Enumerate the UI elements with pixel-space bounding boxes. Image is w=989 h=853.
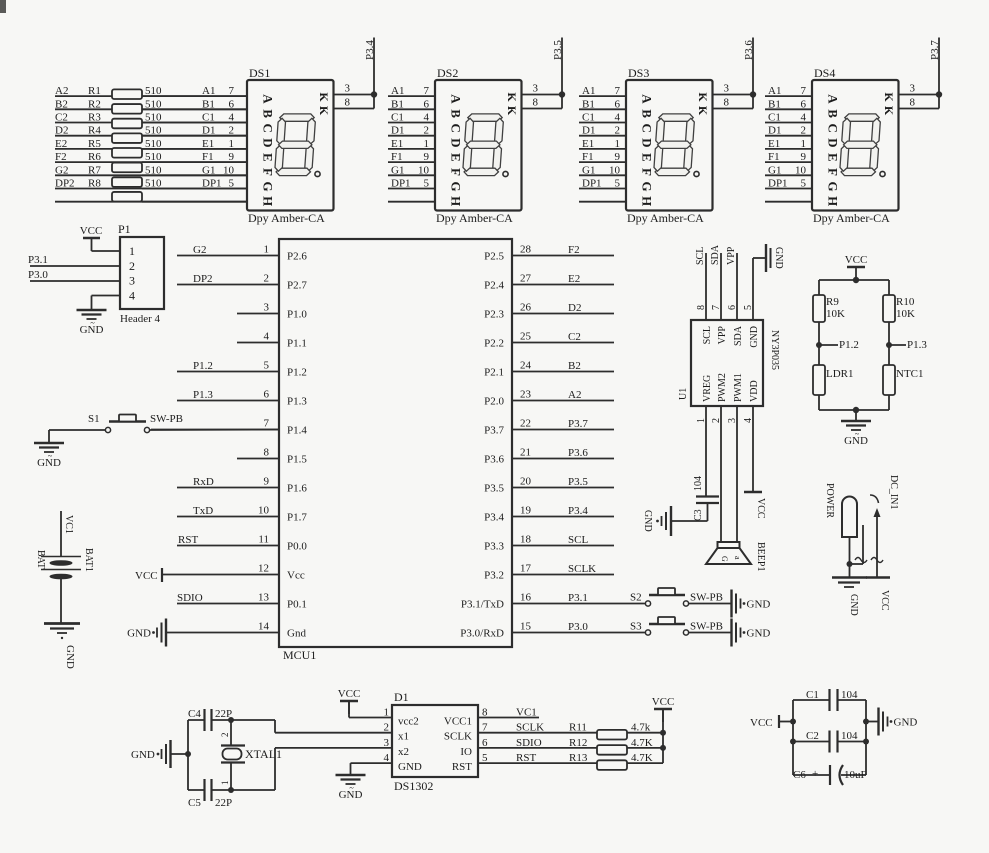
svg-text:3: 3 bbox=[910, 83, 916, 95]
svg-text:SDA: SDA bbox=[733, 325, 744, 346]
U1 pin 3 wire to speaker bbox=[736, 406, 738, 542]
wire D1 pin 7 to R11 bbox=[478, 732, 597, 734]
svg-text:C2: C2 bbox=[55, 112, 68, 124]
svg-text:9: 9 bbox=[615, 151, 621, 163]
DS3 decimal point bbox=[694, 171, 699, 176]
sideways ground at filter caps bbox=[879, 708, 918, 736]
DS4 decimal point bbox=[880, 171, 885, 176]
connector DC_IN1 bbox=[855, 475, 899, 577]
svg-text:DP2: DP2 bbox=[193, 273, 213, 285]
svg-text:C1: C1 bbox=[202, 112, 215, 124]
DS4 seven-segment digit 8 bbox=[840, 114, 880, 176]
wire R13 to VCC bus bbox=[627, 762, 663, 764]
svg-text:G: G bbox=[720, 556, 729, 562]
DS1 inner segment letters A-H bbox=[261, 94, 276, 206]
svg-text:P1.2: P1.2 bbox=[193, 360, 213, 372]
wire P3.1 to P1 pin2 bbox=[30, 265, 120, 267]
svg-text:F1: F1 bbox=[768, 151, 780, 163]
svg-text:SCL: SCL bbox=[695, 247, 706, 265]
wire P3.0 to P1 pin3 bbox=[30, 280, 120, 282]
svg-text:DS4: DS4 bbox=[814, 66, 835, 80]
VCC terminal at U1 pin 4 bbox=[744, 492, 766, 519]
display DS4 box bbox=[812, 66, 899, 225]
svg-text:510: 510 bbox=[145, 178, 162, 190]
svg-text:GND: GND bbox=[747, 599, 771, 611]
svg-text:NY3P035: NY3P035 bbox=[769, 330, 780, 370]
svg-text:B: B bbox=[449, 109, 464, 118]
svg-text:a: a bbox=[733, 556, 742, 560]
svg-text:26: 26 bbox=[520, 302, 532, 314]
svg-text:DS1302: DS1302 bbox=[394, 779, 433, 793]
svg-text:18: 18 bbox=[520, 534, 532, 546]
DS3 seven-segment digit 8 bbox=[654, 114, 694, 176]
capacitor C4 22P bbox=[188, 708, 232, 731]
svg-text:K: K bbox=[317, 92, 331, 102]
DS3 pin 3 wire bbox=[713, 94, 754, 96]
svg-text:GND: GND bbox=[339, 789, 363, 801]
svg-text:P3.6: P3.6 bbox=[743, 40, 755, 60]
U1 pin 6 wire bbox=[736, 253, 738, 320]
svg-text:PWM2: PWM2 bbox=[717, 373, 728, 402]
svg-text:G1: G1 bbox=[391, 164, 404, 176]
svg-text:GND: GND bbox=[398, 761, 422, 773]
DS4 pin 3 wire bbox=[899, 94, 940, 96]
svg-text:DP1: DP1 bbox=[202, 178, 222, 190]
MCU left pin numbers and inner labels bbox=[258, 244, 307, 640]
junction R11 bus bbox=[660, 730, 666, 736]
svg-text:7: 7 bbox=[615, 85, 621, 97]
DS4 pin numbers 3 8 bbox=[910, 83, 916, 109]
svg-text:4: 4 bbox=[424, 112, 430, 124]
svg-text:Dpy Amber-CA: Dpy Amber-CA bbox=[627, 211, 704, 225]
VCC symbol at P1 pin 1 bbox=[80, 225, 103, 238]
svg-text:C4: C4 bbox=[188, 708, 201, 720]
svg-text:F: F bbox=[449, 168, 464, 176]
svg-text:DC_IN1: DC_IN1 bbox=[888, 475, 899, 509]
svg-text:R11: R11 bbox=[569, 722, 587, 734]
svg-text:6: 6 bbox=[264, 389, 270, 401]
svg-text:P3.1: P3.1 bbox=[568, 592, 588, 604]
svg-text:D1: D1 bbox=[391, 125, 404, 137]
wire POWER to junction bbox=[849, 537, 851, 564]
svg-text:14: 14 bbox=[258, 621, 270, 633]
VCC at D1 pin 1 bbox=[338, 688, 361, 714]
svg-text:P1.4: P1.4 bbox=[287, 425, 307, 437]
left rail filter caps bbox=[792, 700, 794, 775]
sideways ground at S2 bbox=[732, 590, 771, 618]
battery BAT1 bbox=[35, 511, 94, 623]
svg-text:4: 4 bbox=[264, 331, 270, 343]
DS2 inner segment letters A-H bbox=[449, 94, 464, 206]
speaker BEEP1 bbox=[706, 542, 766, 571]
svg-text:P3.4: P3.4 bbox=[568, 505, 588, 517]
junction VCC rail bbox=[853, 277, 859, 283]
svg-text:Vcc: Vcc bbox=[287, 570, 305, 582]
switch S2 SW-PB bbox=[630, 588, 723, 606]
resistor R1 bbox=[88, 85, 162, 99]
resistor R6 bbox=[88, 151, 162, 172]
svg-text:P0.0: P0.0 bbox=[287, 541, 307, 553]
svg-text:3: 3 bbox=[264, 302, 270, 314]
svg-text:A2: A2 bbox=[568, 389, 581, 401]
svg-text:B1: B1 bbox=[768, 98, 781, 110]
svg-text:4: 4 bbox=[615, 112, 621, 124]
U1 pin 7 wire bbox=[720, 253, 722, 320]
sideways ground at C3 bbox=[642, 506, 671, 536]
svg-text:510: 510 bbox=[145, 164, 162, 176]
svg-text:P1.5: P1.5 bbox=[287, 454, 307, 466]
svg-text:G: G bbox=[261, 182, 276, 192]
svg-text:510: 510 bbox=[145, 112, 162, 124]
resistor R3 bbox=[88, 112, 162, 129]
svg-text:RST: RST bbox=[516, 752, 536, 764]
D1 inner pin labels bbox=[398, 716, 472, 774]
wire to ground bbox=[855, 410, 857, 421]
thermistor NTC1 bbox=[883, 365, 924, 395]
svg-text:P0.1: P0.1 bbox=[287, 599, 307, 611]
svg-text:E1: E1 bbox=[202, 138, 214, 150]
junction P1.3 tap bbox=[886, 342, 892, 348]
svg-text:510: 510 bbox=[145, 85, 162, 97]
svg-text:A1: A1 bbox=[768, 85, 781, 97]
svg-text:U1: U1 bbox=[678, 388, 689, 400]
U1 pin 4 wire to VCC bbox=[752, 406, 754, 492]
svg-text:DS1: DS1 bbox=[249, 66, 270, 80]
svg-text:G2: G2 bbox=[193, 244, 206, 256]
wire ground to cap rail bbox=[171, 753, 189, 755]
left rail C4-C5 bbox=[187, 720, 189, 790]
svg-text:F1: F1 bbox=[391, 151, 403, 163]
svg-text:P1.2: P1.2 bbox=[287, 367, 307, 379]
junction left rail VCC bbox=[790, 719, 796, 725]
svg-text:C: C bbox=[449, 124, 464, 133]
display DS3 box bbox=[626, 66, 713, 225]
junction cap rail bbox=[185, 751, 191, 757]
power switch POWER bbox=[824, 483, 857, 537]
wire R10 to NTC1 bbox=[888, 322, 890, 365]
svg-text:G1: G1 bbox=[582, 164, 595, 176]
svg-text:510: 510 bbox=[145, 151, 162, 163]
svg-text:Header 4: Header 4 bbox=[120, 313, 161, 325]
svg-text:x1: x1 bbox=[398, 731, 409, 743]
svg-text:R3: R3 bbox=[88, 112, 101, 124]
DS4 segment pin wires A1..DP1 bbox=[765, 96, 812, 202]
svg-text:104: 104 bbox=[693, 476, 704, 491]
DS2 decimal point bbox=[503, 171, 508, 176]
svg-text:10K: 10K bbox=[896, 308, 915, 320]
svg-text:P3.3: P3.3 bbox=[484, 541, 504, 553]
svg-text:D1: D1 bbox=[582, 125, 595, 137]
DS1 K K common cathode letters bbox=[317, 92, 331, 116]
DS2 pin labels A1 7 .. DP1 5 bbox=[391, 85, 430, 189]
svg-text:SCLK: SCLK bbox=[444, 731, 472, 743]
svg-text:9: 9 bbox=[424, 151, 430, 163]
svg-text:R8: R8 bbox=[88, 178, 101, 190]
MCU left pin wires 1-14 bbox=[151, 256, 279, 633]
DS3 pin labels A1 7 .. DP1 5 bbox=[582, 85, 621, 189]
junction at DS2 K net bbox=[559, 91, 565, 97]
DS3 inner segment letters A-H bbox=[640, 94, 655, 206]
svg-text:A: A bbox=[640, 94, 655, 104]
svg-text:F2: F2 bbox=[568, 244, 580, 256]
svg-text:DS2: DS2 bbox=[437, 66, 458, 80]
svg-text:B1: B1 bbox=[582, 98, 595, 110]
junction R12 bus bbox=[660, 745, 666, 751]
wire S3 to ground bbox=[689, 632, 731, 634]
svg-text:K: K bbox=[882, 92, 896, 102]
net P3.5 vertical wire bbox=[561, 38, 563, 95]
svg-text:D2: D2 bbox=[568, 302, 581, 314]
svg-text:H: H bbox=[640, 196, 655, 206]
sideways ground at MCU pin 14 bbox=[127, 619, 166, 647]
svg-text:3: 3 bbox=[724, 83, 730, 95]
net P3.7 vertical wire bbox=[938, 38, 940, 95]
svg-text:C3: C3 bbox=[693, 509, 704, 521]
svg-text:10uF: 10uF bbox=[844, 769, 867, 781]
wire VCC to P1 pin1 bbox=[92, 238, 121, 251]
svg-text:22: 22 bbox=[520, 418, 531, 430]
svg-text:C2: C2 bbox=[806, 730, 819, 742]
svg-text:TxD: TxD bbox=[193, 505, 213, 517]
svg-text:P2.7: P2.7 bbox=[287, 280, 307, 292]
wire S1 to ground bbox=[49, 430, 105, 443]
svg-text:SW-PB: SW-PB bbox=[690, 621, 723, 633]
DS1 decimal point bbox=[315, 171, 320, 176]
U1 pin 5 wire to ground bbox=[753, 258, 766, 320]
svg-text:8: 8 bbox=[533, 97, 539, 109]
VCC above R9 R10 bbox=[845, 254, 868, 280]
svg-text:C: C bbox=[261, 124, 276, 133]
MCU right pin wires 28-15 bbox=[512, 256, 645, 633]
svg-text:VCC: VCC bbox=[80, 225, 103, 237]
DS3 pin 8 wire bbox=[713, 95, 754, 109]
svg-text:24: 24 bbox=[520, 360, 532, 372]
svg-text:B1: B1 bbox=[202, 98, 215, 110]
svg-text:7: 7 bbox=[801, 85, 807, 97]
svg-text:G: G bbox=[449, 182, 464, 192]
U1 pin 8 wire to SCL bbox=[705, 253, 707, 320]
svg-text:A: A bbox=[449, 94, 464, 104]
wire junction to DC jack bbox=[850, 525, 864, 564]
DS3 pin numbers 3 8 bbox=[724, 83, 730, 109]
svg-text:K: K bbox=[505, 106, 519, 116]
wire S1 to MCU pin 7 bbox=[150, 429, 279, 432]
svg-text:P3.0: P3.0 bbox=[568, 621, 588, 633]
svg-text:C1: C1 bbox=[768, 112, 781, 124]
svg-text:R1: R1 bbox=[88, 85, 101, 97]
junction C4-XTAL bbox=[228, 717, 234, 723]
svg-text:P1.3: P1.3 bbox=[907, 339, 927, 351]
junction at DS4 K net bbox=[936, 91, 942, 97]
svg-text:R6: R6 bbox=[88, 151, 101, 163]
wire XTAL to D1 pin 3 x2 bbox=[275, 747, 392, 749]
junction left rail C2 bbox=[790, 739, 796, 745]
svg-text:E1: E1 bbox=[391, 138, 403, 150]
svg-text:VCC: VCC bbox=[750, 717, 773, 729]
svg-text:SCLK: SCLK bbox=[568, 563, 596, 575]
svg-text:R2: R2 bbox=[88, 98, 101, 110]
svg-text:10K: 10K bbox=[826, 308, 845, 320]
capacitor C5 22P bbox=[188, 779, 232, 809]
svg-text:P3.0: P3.0 bbox=[28, 269, 48, 281]
svg-text:P3.7: P3.7 bbox=[568, 418, 588, 430]
DS2 pin numbers 3 8 bbox=[533, 83, 539, 109]
svg-text:A2: A2 bbox=[55, 85, 68, 97]
svg-text:S2: S2 bbox=[630, 592, 642, 604]
svg-text:1: 1 bbox=[615, 138, 621, 150]
svg-text:E: E bbox=[261, 153, 276, 162]
svg-text:VCC: VCC bbox=[135, 570, 158, 582]
wire C3 to ground bbox=[671, 503, 708, 521]
svg-text:H: H bbox=[449, 196, 464, 206]
svg-text:6: 6 bbox=[615, 98, 621, 110]
DS2 K K common cathode letters bbox=[505, 92, 519, 116]
svg-text:G1: G1 bbox=[768, 164, 781, 176]
svg-text:9: 9 bbox=[801, 151, 807, 163]
svg-text:D: D bbox=[640, 138, 655, 147]
svg-text:R12: R12 bbox=[569, 737, 587, 749]
svg-text:P1.2: P1.2 bbox=[839, 339, 859, 351]
switch S3 SW-PB bbox=[630, 617, 723, 635]
DS4 inner segment letters A-H bbox=[826, 94, 841, 206]
resistor R13 4.7k bbox=[569, 752, 653, 770]
svg-text:16: 16 bbox=[520, 592, 532, 604]
svg-text:P2.5: P2.5 bbox=[484, 251, 504, 263]
svg-text:8: 8 bbox=[910, 97, 916, 109]
svg-text:5: 5 bbox=[615, 178, 621, 190]
svg-text:1: 1 bbox=[220, 781, 230, 786]
svg-text:10: 10 bbox=[223, 164, 235, 176]
svg-text:P2.2: P2.2 bbox=[484, 338, 504, 350]
resistor R10 10K bbox=[883, 295, 915, 322]
svg-text:2: 2 bbox=[801, 125, 807, 137]
svg-text:10: 10 bbox=[609, 164, 621, 176]
svg-text:S1: S1 bbox=[88, 413, 100, 425]
svg-text:VCC: VCC bbox=[755, 498, 766, 519]
wire P1 pin4 to ground bbox=[92, 296, 121, 311]
svg-text:H: H bbox=[826, 196, 841, 206]
D1 right pin numbers 8-5 bbox=[482, 707, 488, 765]
svg-text:B2: B2 bbox=[568, 360, 581, 372]
svg-text:B: B bbox=[640, 109, 655, 118]
svg-text:MCU1: MCU1 bbox=[283, 648, 316, 662]
DS4 pin 8 wire bbox=[899, 95, 940, 109]
svg-text:3: 3 bbox=[533, 83, 539, 95]
ground below BAT1 bbox=[44, 624, 80, 669]
bottom rail wire LDR-NTC bbox=[819, 395, 889, 410]
ground below R9 network bbox=[841, 421, 871, 447]
IC D1 DS1302 box bbox=[392, 690, 478, 793]
svg-text:VPP: VPP bbox=[726, 246, 737, 265]
svg-text:G2: G2 bbox=[55, 164, 68, 176]
svg-text:DP1: DP1 bbox=[582, 178, 602, 190]
svg-text:P2.4: P2.4 bbox=[484, 280, 504, 292]
svg-text:VCC1: VCC1 bbox=[444, 716, 472, 728]
resistor R5 bbox=[88, 138, 162, 158]
resistor network wires A2..DP2 rows bbox=[55, 96, 247, 202]
crystal XTAL1 bbox=[220, 720, 282, 790]
photoresistor LDR1 bbox=[813, 365, 854, 395]
svg-text:XTAL1: XTAL1 bbox=[245, 747, 282, 761]
VCC terminal at MCU pin 12 bbox=[135, 568, 162, 582]
svg-text:P3.4: P3.4 bbox=[364, 40, 376, 60]
svg-text:DS3: DS3 bbox=[628, 66, 649, 80]
svg-text:F: F bbox=[261, 168, 276, 176]
resistor R7 bbox=[88, 164, 162, 187]
svg-text:GND: GND bbox=[747, 628, 771, 640]
VCC terminal at DC_IN1 bbox=[866, 578, 890, 611]
display DS1 box bbox=[247, 66, 334, 225]
svg-text:10: 10 bbox=[258, 505, 270, 517]
resistor R2 bbox=[88, 98, 162, 113]
resistor R4 bbox=[88, 125, 162, 143]
svg-text:6: 6 bbox=[424, 98, 430, 110]
MCU U? main microcontroller MCU1 box bbox=[279, 239, 512, 662]
ground below S1 bbox=[34, 443, 64, 469]
DS3 segment pin wires A1..DP1 bbox=[579, 96, 626, 202]
svg-text:P3.4: P3.4 bbox=[484, 512, 504, 524]
svg-text:2: 2 bbox=[229, 125, 235, 137]
svg-text:LDR1: LDR1 bbox=[826, 368, 854, 380]
ground below P1 bbox=[77, 310, 107, 336]
net label P1.2 stub bbox=[819, 339, 859, 351]
svg-text:Dpy Amber-CA: Dpy Amber-CA bbox=[436, 211, 513, 225]
wire VCC to D1 pin 1 bbox=[349, 701, 392, 718]
svg-text:P3.6: P3.6 bbox=[568, 447, 588, 459]
svg-text:B: B bbox=[826, 109, 841, 118]
svg-text:P2.1: P2.1 bbox=[484, 367, 504, 379]
junction right rail top bbox=[863, 719, 869, 725]
svg-text:P1.3: P1.3 bbox=[193, 389, 213, 401]
right rail filter caps bbox=[865, 700, 867, 775]
svg-text:19: 19 bbox=[520, 505, 532, 517]
svg-text:28: 28 bbox=[520, 244, 532, 256]
svg-text:P1.7: P1.7 bbox=[287, 512, 307, 524]
svg-text:D1: D1 bbox=[768, 125, 781, 137]
svg-text:D: D bbox=[826, 138, 841, 147]
svg-text:VCC: VCC bbox=[879, 590, 890, 611]
svg-text:22P: 22P bbox=[215, 797, 232, 809]
svg-text:1: 1 bbox=[229, 138, 235, 150]
svg-text:SDIO: SDIO bbox=[516, 737, 542, 749]
wire D1 pin 6 to R12 bbox=[478, 747, 597, 749]
svg-text:GND: GND bbox=[642, 510, 653, 532]
svg-text:4: 4 bbox=[801, 112, 807, 124]
svg-text:SCL: SCL bbox=[568, 534, 588, 546]
svg-text:GND: GND bbox=[773, 247, 784, 269]
wire D1 pin 4 to ground bbox=[351, 763, 393, 775]
svg-text:13: 13 bbox=[258, 592, 270, 604]
svg-text:G: G bbox=[640, 182, 655, 192]
wire XTAL bottom to D1 x2 bbox=[231, 748, 275, 790]
svg-text:21: 21 bbox=[520, 447, 531, 459]
svg-text:104: 104 bbox=[841, 689, 858, 701]
svg-text:E2: E2 bbox=[568, 273, 580, 285]
svg-text:C: C bbox=[640, 124, 655, 133]
svg-text:1: 1 bbox=[264, 244, 270, 256]
svg-text:C5: C5 bbox=[188, 797, 201, 809]
svg-text:D: D bbox=[449, 138, 464, 147]
svg-text:E: E bbox=[826, 153, 841, 162]
svg-text:P3.1: P3.1 bbox=[28, 254, 48, 266]
svg-text:C2: C2 bbox=[568, 331, 581, 343]
svg-text:BAT: BAT bbox=[35, 550, 46, 569]
svg-text:P3.0/RxD: P3.0/RxD bbox=[460, 628, 504, 640]
svg-text:A: A bbox=[261, 94, 276, 104]
svg-text:P3.7: P3.7 bbox=[484, 425, 504, 437]
svg-text:DP2: DP2 bbox=[55, 178, 75, 190]
svg-text:P3.5: P3.5 bbox=[552, 40, 564, 60]
